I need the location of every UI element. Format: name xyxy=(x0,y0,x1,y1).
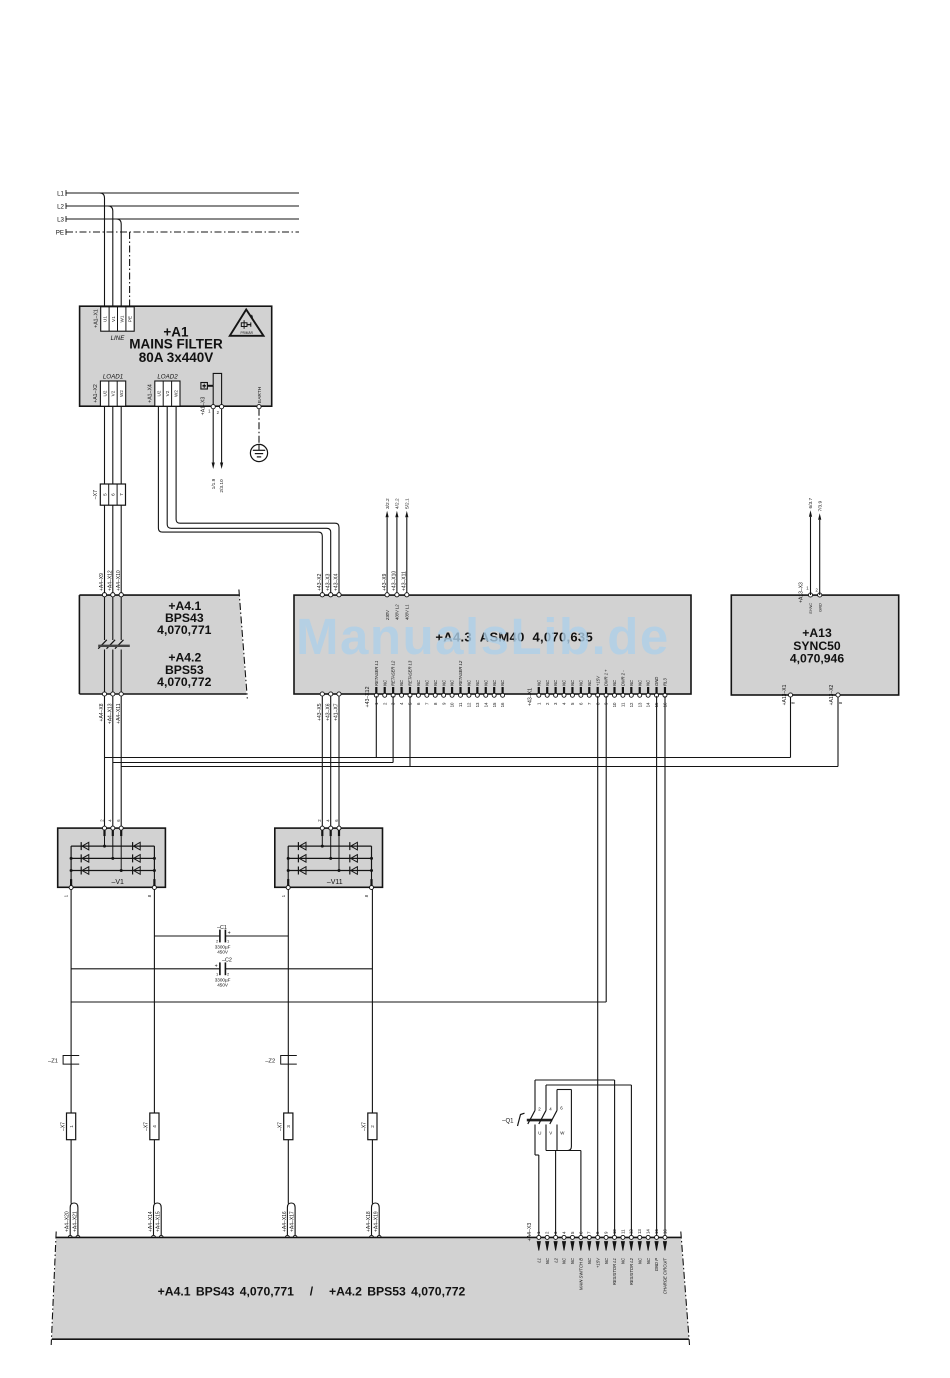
svg-text:+: + xyxy=(228,931,231,937)
svg-text:4,070,772: 4,070,772 xyxy=(157,675,211,689)
svg-text:15: 15 xyxy=(654,1229,659,1234)
svg-text:5: 5 xyxy=(102,493,107,496)
svg-text:ManualsLib.de: ManualsLib.de xyxy=(296,608,670,665)
connector X7 pin 4 xyxy=(144,1113,159,1140)
svg-text:+43–X12: +43–X12 xyxy=(365,686,371,707)
connector A4-X3 pins 1-16 xyxy=(527,1223,668,1294)
svg-text:–V11: –V11 xyxy=(327,879,343,886)
svg-text:+A4–X19: +A4–X19 xyxy=(374,1211,380,1232)
svg-text:10: 10 xyxy=(612,1229,617,1234)
wire A3-X1.15 to A4-X3.15 xyxy=(656,696,658,1235)
svg-text:+A4.1 BPS43 4,070,771 / +A: +A4.1 BPS43 4,070,771 / +A4.2 BPS53 4,07… xyxy=(158,1285,466,1299)
wire LOAD1 V2 down xyxy=(112,406,114,484)
svg-text:NC: NC xyxy=(467,679,472,686)
connector A13-X3 pins 1 2 with up arrows xyxy=(799,497,824,614)
node PE mains line (dash-dot) xyxy=(56,229,299,237)
svg-text:4/2.2: 4/2.2 xyxy=(395,498,401,509)
connector A3-X12 pins 1-16 xyxy=(365,660,505,707)
wire LOAD1 U2 down xyxy=(104,406,106,484)
svg-text:–X7: –X7 xyxy=(144,1122,150,1131)
svg-text:L2: L2 xyxy=(57,204,64,211)
svg-text:7/3.9: 7/3.9 xyxy=(817,500,823,511)
svg-text:NC: NC xyxy=(562,1257,567,1264)
rectifier bridge &#8211;V1 box xyxy=(58,828,166,887)
left box title text xyxy=(157,599,211,689)
svg-text:W2: W2 xyxy=(119,390,124,397)
wire DC minus sense bus to A3-X1.9 xyxy=(71,696,606,1002)
svg-text:+A4–X18: +A4–X18 xyxy=(366,1211,372,1232)
wire Q1 contact1 top to A4-X3.10 xyxy=(535,1080,615,1235)
svg-text:+A4–X21: +A4–X21 xyxy=(72,1211,78,1232)
svg-text:NC: NC xyxy=(450,679,455,686)
svg-text:W2: W2 xyxy=(174,390,179,397)
svg-text:+A4–X15: +A4–X15 xyxy=(156,1211,162,1232)
terminal pair X14 X15 xyxy=(148,1203,164,1259)
terminal pair X20 X21 xyxy=(65,1203,81,1259)
svg-text:NC: NC xyxy=(536,679,541,686)
svg-text:U2: U2 xyxy=(157,390,162,396)
svg-text:MAIN SWITCH B: MAIN SWITCH B xyxy=(579,1258,584,1290)
svg-text:+A13–X3: +A13–X3 xyxy=(799,582,805,603)
svg-text:NC: NC xyxy=(553,679,558,686)
power board A4.1/A4.2 BPS box xyxy=(79,590,247,699)
wire X7.5 to A4-X9 xyxy=(99,505,106,597)
node L3 mains line xyxy=(57,216,299,224)
suppressor Z2 xyxy=(265,1056,297,1065)
svg-text:2/3.10: 2/3.10 xyxy=(219,479,225,493)
svg-text:NC: NC xyxy=(570,679,575,686)
svg-text:GND: GND xyxy=(654,677,659,686)
svg-text:W1: W1 xyxy=(119,315,124,322)
wire +43&#8211;X10 to sheet ref 4/2.2 xyxy=(392,498,401,620)
svg-text:NC: NC xyxy=(416,679,421,686)
main switch Q1 xyxy=(502,1106,565,1136)
svg-text:–C1: –C1 xyxy=(217,925,227,931)
wire Q1 contact2 top to A4-X3.12 xyxy=(546,1085,631,1235)
wire LOAD1 W2 down xyxy=(120,406,122,484)
&#8211;V1 internal rails and diodes xyxy=(70,836,156,886)
terminal block A1-X2 LOAD1 xyxy=(93,374,126,407)
terminal block A1-X1 LINE xyxy=(94,307,135,342)
wire L3 drop to filter W1 xyxy=(116,219,121,307)
&#8211;V11 input pins 2 4 6 xyxy=(317,819,341,836)
svg-text:NC: NC xyxy=(545,679,550,686)
svg-text:+43–X9: +43–X9 xyxy=(382,573,388,591)
svg-text:V2: V2 xyxy=(111,390,116,396)
svg-text:NC: NC xyxy=(578,679,583,686)
&#8211;V11 internal rails and diodes xyxy=(287,836,373,886)
svg-text:RESISTOR L1: RESISTOR L1 xyxy=(612,1258,617,1285)
svg-text:+43–X4: +43–X4 xyxy=(334,573,340,591)
wire X7 to V11 input 6 xyxy=(338,696,340,829)
connector X7 pin 3 xyxy=(278,1113,293,1140)
svg-text:NC: NC xyxy=(637,1257,642,1264)
svg-text:14: 14 xyxy=(646,1229,651,1234)
left box top pin circles xyxy=(102,593,123,597)
svg-text:PE: PE xyxy=(56,230,64,237)
middle box top-left pin circles X2 X3 X4 xyxy=(320,593,341,597)
terminal pair X18 X19 xyxy=(366,1203,382,1259)
wire LOAD2 V2 to A3-X3 xyxy=(167,406,333,597)
control board A4.3 ASM40 box xyxy=(294,595,691,694)
wire L1 drop to filter U1 xyxy=(100,193,105,307)
wire phase sense L3: A3-X12.5 to V1 input, and to A13-X2 xyxy=(121,696,838,766)
svg-text:10: 10 xyxy=(612,702,617,707)
svg-text:DMR 1 +: DMR 1 + xyxy=(604,669,609,686)
capacitor C2 3300uF 450V xyxy=(71,958,372,988)
svg-text:–Z1: –Z1 xyxy=(48,1058,58,1064)
wire V11.1 down (chain 3) xyxy=(287,889,289,1203)
svg-text:+A4–X10: +A4–X10 xyxy=(116,570,122,591)
wire X5 to V11 input 2 xyxy=(321,696,323,829)
power board A4.1/A4.2 bottom section xyxy=(51,1232,689,1346)
svg-text:4,070,946: 4,070,946 xyxy=(790,652,844,666)
svg-text:NC: NC xyxy=(399,679,404,686)
svg-text:4: 4 xyxy=(152,1125,157,1128)
connector A13-X1 bottom pin xyxy=(782,684,796,705)
left box bottom pins A4-X8 A4-X13 A4-X11 xyxy=(99,692,123,724)
wire V1.1 down (DC link chain 1) xyxy=(70,889,72,1203)
svg-text:450V: 450V xyxy=(217,982,229,987)
svg-text:NC: NC xyxy=(441,679,446,686)
wire +43&#8211;X9 to sheet ref 3/2.2 xyxy=(382,498,391,621)
svg-text:–C2: –C2 xyxy=(222,958,232,964)
svg-text:NC: NC xyxy=(500,679,505,686)
svg-text:+A4–X17: +A4–X17 xyxy=(290,1211,296,1232)
svg-text:3: 3 xyxy=(286,1125,291,1128)
svg-text:NC: NC xyxy=(612,679,617,686)
&#8211;V11 output pins 1 and 8 xyxy=(281,871,374,898)
svg-text:+A4–X3: +A4–X3 xyxy=(527,1223,533,1242)
svg-text:+A13: +A13 xyxy=(802,626,832,640)
svg-text:–X7: –X7 xyxy=(362,1122,368,1131)
connector A13-X2 bottom pin xyxy=(829,684,843,705)
wire phase sense L1: A3-X12.1 to V1 input, and to A13-X1 xyxy=(105,696,791,757)
wire A4-X13 to V1 input 4 xyxy=(112,696,114,828)
svg-text:L2: L2 xyxy=(553,1257,558,1262)
svg-text:GND: GND xyxy=(817,603,822,612)
wire Q1 contact2/3 bottom to A4-X3.3 and X3.6 xyxy=(546,1125,581,1236)
svg-text:–X7: –X7 xyxy=(278,1122,284,1131)
svg-text:1: 1 xyxy=(69,1125,74,1128)
wire LOAD2 W2 to A3-X4 xyxy=(176,406,341,597)
svg-text:NC: NC xyxy=(433,679,438,686)
svg-text:L3: L3 xyxy=(57,217,64,224)
svg-text:LINE: LINE xyxy=(111,335,126,342)
svg-text:NC: NC xyxy=(562,679,567,686)
svg-text:13: 13 xyxy=(637,1229,642,1234)
EARTH pin and ground symbol xyxy=(250,386,267,461)
svg-text:L1: L1 xyxy=(537,1258,542,1263)
middle box bottom-left pins X5 X6 X7 xyxy=(317,692,341,721)
suppressor Z1 xyxy=(48,1056,79,1065)
wire A3-X1.8 to A4-X3.8 (+15V) xyxy=(597,696,599,1235)
svg-text:–X7: –X7 xyxy=(60,1122,66,1131)
svg-text:11: 11 xyxy=(621,702,626,707)
svg-text:+: + xyxy=(215,963,218,969)
mains filter module A1 box xyxy=(80,306,272,406)
svg-text:+A1–X2: +A1–X2 xyxy=(93,384,99,403)
svg-text:–X7: –X7 xyxy=(93,490,99,499)
svg-text:14: 14 xyxy=(483,702,488,707)
wire X7.7 to A4-X10 xyxy=(116,505,123,597)
sync board A13 SYNC50 box xyxy=(731,595,898,695)
svg-text:NC: NC xyxy=(587,679,592,686)
svg-text:80A 3x440V: 80A 3x440V xyxy=(139,350,214,365)
svg-text:SYNC: SYNC xyxy=(808,603,813,614)
warning triangle PRIMAER xyxy=(230,310,264,336)
terminal block A1-X4 LOAD2 xyxy=(148,374,180,407)
filter title text xyxy=(129,325,223,366)
svg-text:CHARGE CIRCUIT: CHARGE CIRCUIT xyxy=(663,1258,668,1295)
svg-text:NC: NC xyxy=(637,679,642,686)
rectifier bridge &#8211;V11 box xyxy=(275,828,383,887)
svg-text:16: 16 xyxy=(500,702,505,707)
svg-text:14: 14 xyxy=(646,702,651,707)
svg-text:NC: NC xyxy=(646,1257,651,1264)
svg-text:6: 6 xyxy=(111,493,116,496)
svg-text:–V1: –V1 xyxy=(111,879,124,886)
node L1 mains line xyxy=(57,190,299,198)
switch contacts inside left box xyxy=(98,597,130,692)
right box title text xyxy=(790,626,844,666)
svg-text:13: 13 xyxy=(637,702,642,707)
svg-text:NC: NC xyxy=(382,679,387,686)
svg-text:+43–X10: +43–X10 xyxy=(392,571,398,591)
svg-text:NC: NC xyxy=(483,679,488,686)
&#8211;V1 input pins 2 4 6 xyxy=(99,819,123,836)
svg-text:PE: PE xyxy=(128,316,133,322)
svg-text:+A1–X3: +A1–X3 xyxy=(201,397,207,416)
svg-text:U1: U1 xyxy=(103,316,108,322)
connector X7 pin 2 xyxy=(362,1113,377,1140)
svg-text:NC: NC xyxy=(424,679,429,686)
svg-text:2: 2 xyxy=(370,1125,375,1128)
svg-text:+A1–X1: +A1–X1 xyxy=(94,309,100,328)
connector A1-X3 with chassis symbol xyxy=(201,373,224,415)
wire A1-X3 pin1 to sheet ref 1/1.9 xyxy=(211,409,217,490)
wire L2 drop to filter V1 xyxy=(108,206,113,307)
svg-text:6/3.7: 6/3.7 xyxy=(808,497,814,508)
svg-text:NC: NC xyxy=(475,679,480,686)
svg-text:12: 12 xyxy=(629,702,634,707)
svg-text:12: 12 xyxy=(467,702,472,707)
svg-text:–Q1: –Q1 xyxy=(502,1119,514,1125)
svg-text:+A1–X4: +A1–X4 xyxy=(148,384,154,403)
svg-text:+A13–X1: +A13–X1 xyxy=(782,684,788,705)
svg-text:+A4–X12: +A4–X12 xyxy=(108,570,114,591)
svg-text:NC: NC xyxy=(545,1257,550,1264)
svg-text:+A4–X20: +A4–X20 xyxy=(65,1211,71,1232)
svg-text:1/1.9: 1/1.9 xyxy=(211,478,217,489)
wire A1-X3 pin2 to sheet ref 2/3.10 xyxy=(219,409,225,493)
connector X7 pins 5 6 7 xyxy=(93,484,126,505)
svg-text:+15V: +15V xyxy=(595,1257,600,1268)
svg-text:LOAD2: LOAD2 xyxy=(157,374,178,381)
svg-text:NC: NC xyxy=(629,679,634,686)
connector X7 pin 1 xyxy=(60,1113,75,1140)
svg-text:+43–X11: +43–X11 xyxy=(402,571,408,591)
svg-text:5/2.1: 5/2.1 xyxy=(405,498,411,509)
svg-text:V1: V1 xyxy=(111,316,116,322)
svg-text:PRIMÄR: PRIMÄR xyxy=(240,331,253,335)
wire +43&#8211;X11 to sheet ref 5/2.1 xyxy=(402,498,411,620)
svg-text:U2: U2 xyxy=(102,390,107,396)
svg-text:+A4–X16: +A4–X16 xyxy=(282,1211,288,1232)
wire X6 to V11 input 4 xyxy=(330,696,332,829)
wire V11.8 down (chain 4) xyxy=(371,889,373,1203)
svg-text:NC: NC xyxy=(621,1257,626,1264)
svg-text:GND P: GND P xyxy=(654,1258,659,1271)
wire A4-X8 to V1 input 2 xyxy=(104,696,106,828)
svg-text:16: 16 xyxy=(662,1229,667,1234)
wire V1.8 down (chain 2) xyxy=(153,889,155,1203)
svg-text:+15V: +15V xyxy=(595,675,600,686)
svg-text:13: 13 xyxy=(475,702,480,707)
svg-text:+43–X2: +43–X2 xyxy=(317,573,323,591)
&#8211;V1 output pins 1 and 8 xyxy=(64,871,157,898)
svg-text:NC: NC xyxy=(604,1257,609,1264)
wire A3-X1.16 to A4-X3.16 xyxy=(664,696,666,1235)
svg-text:NC: NC xyxy=(587,1257,592,1264)
svg-text:+A4–X9: +A4–X9 xyxy=(99,573,105,591)
svg-text:+43–X1: +43–X1 xyxy=(528,688,534,706)
svg-text:+A4–X14: +A4–X14 xyxy=(148,1211,154,1232)
svg-text:RESISTOR L2: RESISTOR L2 xyxy=(629,1257,634,1285)
wire PE drop to filter PE (dash-dot) xyxy=(129,232,131,307)
svg-text:3/2.2: 3/2.2 xyxy=(385,498,391,509)
wire X7.6 to A4-X12 xyxy=(108,505,115,597)
svg-text:DMR 2 -: DMR 2 - xyxy=(621,670,626,686)
svg-text:V2: V2 xyxy=(165,390,170,396)
svg-text:4,070,771: 4,070,771 xyxy=(157,623,211,637)
svg-text:NC: NC xyxy=(492,679,497,686)
svg-text:–Z2: –Z2 xyxy=(265,1058,275,1064)
wire LOAD2 U2 to A3-X2 xyxy=(158,406,324,597)
capacitor C1 3300uF 450V xyxy=(154,925,288,955)
svg-text:11: 11 xyxy=(458,702,463,707)
svg-text:L1: L1 xyxy=(57,191,64,198)
svg-text:15: 15 xyxy=(492,702,497,707)
svg-text:NC: NC xyxy=(646,679,651,686)
svg-text:7: 7 xyxy=(119,493,124,496)
svg-text:+A13–X2: +A13–X2 xyxy=(829,684,835,705)
svg-text:EARTH: EARTH xyxy=(257,386,263,403)
svg-text:12: 12 xyxy=(629,1229,634,1234)
svg-text:U: U xyxy=(538,1131,541,1136)
svg-text:10: 10 xyxy=(450,702,455,707)
wire Q1 contact3 top loop xyxy=(557,1090,571,1151)
wire phase sense L2: A3-X12.3 to V1 input xyxy=(113,696,393,762)
svg-text:450V: 450V xyxy=(217,950,229,955)
svg-text:NC: NC xyxy=(570,1257,575,1264)
wire Q1 contact1 bottom to A4-X3.1 xyxy=(535,1125,539,1236)
wire A4-X11 to V1 input 6 xyxy=(120,696,122,828)
terminal pair X16 X17 xyxy=(282,1203,298,1259)
node L2 mains line xyxy=(57,203,299,211)
svg-text:+43–X3: +43–X3 xyxy=(325,573,331,591)
svg-text:11: 11 xyxy=(620,1229,625,1234)
svg-text:V: V xyxy=(549,1131,552,1136)
svg-text:RL3: RL3 xyxy=(663,678,668,686)
connector A3-X1 pins 1-16 xyxy=(528,669,668,708)
svg-text:LOAD1: LOAD1 xyxy=(103,374,123,381)
